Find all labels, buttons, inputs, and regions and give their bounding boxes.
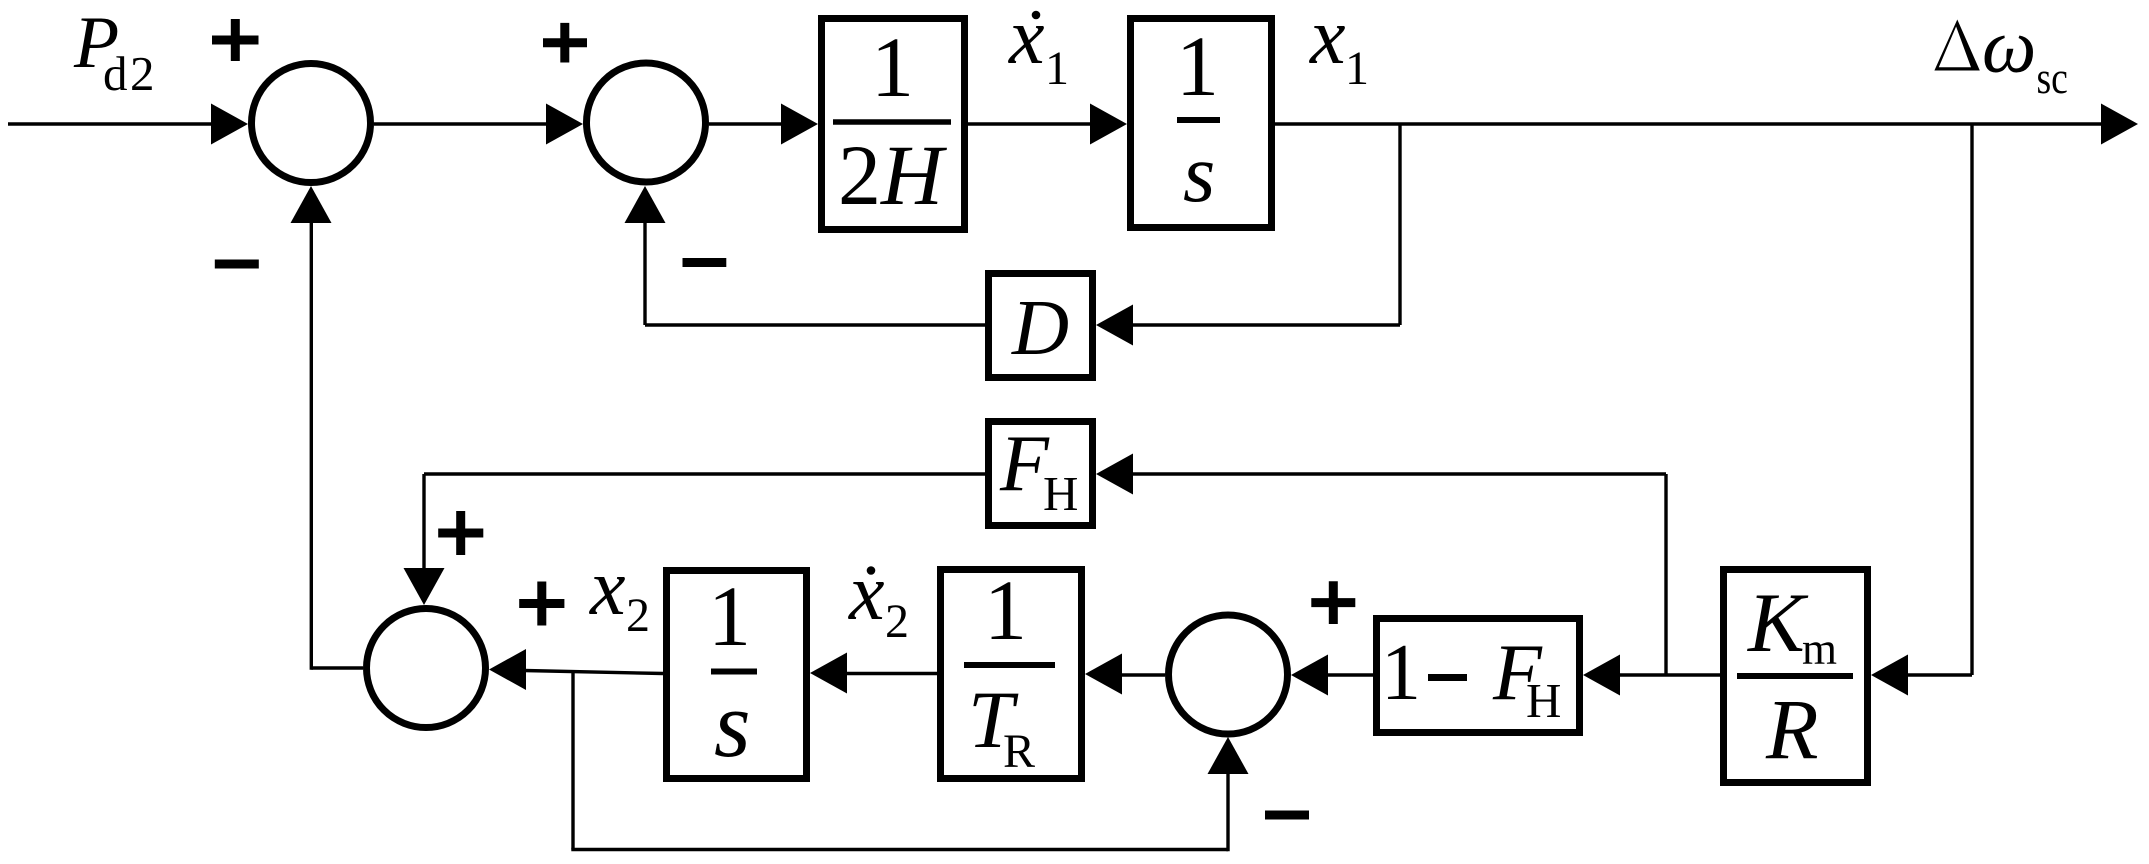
plus sign at S4 right input [1311,581,1355,624]
arrowhead into D right [1096,305,1133,346]
arrowhead down into S3 top [404,568,445,605]
arrowhead into S1 left [211,104,248,145]
arrowhead up into S1 bottom [291,186,332,223]
svg-text:x: x [1309,0,1346,81]
wire KmR output to 1-FH right side [1618,673,1720,676]
wire up into S1 bottom [310,221,313,670]
arrowhead into S2 left [546,104,583,145]
block 1/s top value text [1176,18,1220,219]
block 1/s bottom value text [708,568,757,777]
svg-text:H: H [1043,466,1078,521]
block FH box [989,422,1093,526]
arrowhead output delta-omega_sc [2101,104,2138,145]
block 1/TR box [941,570,1082,779]
svg-text:D: D [1011,285,1069,372]
label P_d2 [73,2,157,101]
label xdot2 [848,549,909,648]
svg-text:2: 2 [885,595,909,648]
wire x2 junction down [571,673,574,850]
block KmR value text [1737,576,1853,777]
svg-text:H: H [1526,673,1561,728]
wire S2 to block 1/2H [709,122,785,125]
wire FH output left to above S3 [424,472,985,475]
wire input Pd2 to summing junction S1 [8,122,214,125]
arrowhead into S3 right [489,649,526,690]
block 1/2H box [822,19,965,230]
arrowhead into 1-FH right [1583,655,1620,696]
summing junction S3 [367,609,486,728]
arrowhead up into S4 bottom [1208,737,1249,774]
summing junction S4 [1169,615,1288,734]
wire junction x1 down to D row [1398,124,1401,325]
svg-text:s: s [1183,127,1215,219]
wire bottom feedback horizontal [571,848,1228,851]
svg-text:d2: d2 [103,46,157,101]
wire S3 output left [311,666,363,669]
arrowhead into FH right [1096,454,1133,495]
minus sign at S4 lower input [1265,811,1309,820]
svg-text:1: 1 [1176,18,1219,114]
arrowhead into S4 right [1291,655,1328,696]
svg-text:m: m [1802,624,1837,674]
svg-text:ω: ω [1982,3,2036,89]
wire into FH block right side [1130,472,1666,475]
svg-text:K: K [1747,576,1809,670]
wire down into S3 top [422,474,425,570]
label x1 [1309,0,1369,95]
summing junction S2 [587,63,706,182]
block 1/TR value text [964,562,1055,778]
block 1-FH value text [1381,629,1561,728]
block 1/2H value text [833,19,951,223]
svg-text:1: 1 [871,19,914,115]
svg-text:s: s [714,673,751,777]
block 1-FH box [1377,619,1580,733]
svg-text:1: 1 [1345,42,1369,95]
wire 1/s bottom output to S3 right (signal x2) [524,671,663,674]
wire output junction down right side [1970,124,1973,675]
svg-text:1: 1 [984,562,1027,658]
minus sign at S2 lower input [683,258,727,267]
plus sign at S3 right input [519,582,564,626]
svg-text:2: 2 [626,589,650,642]
svg-text:1: 1 [1045,42,1069,95]
arrowhead into 1/TR right [1085,654,1122,695]
label x2 [589,544,650,642]
label xdot1 [1008,0,1069,95]
wire S1 to S2 [374,122,550,125]
svg-text:1: 1 [708,568,751,664]
plus sign at S1 input [212,19,259,61]
plus sign at S2 input [543,23,587,63]
svg-text:x: x [589,544,626,632]
label delta-omega_sc [1934,3,2068,104]
block 1/s top box [1131,19,1272,228]
svg-text:sc: sc [2037,54,2068,104]
wire junction at KmR output up to FH row [1664,474,1667,675]
svg-text:x: x [848,549,885,637]
wire D block output left to below S2 [645,323,985,326]
wire into D block right side [1130,323,1400,326]
arrowhead up into S2 bottom [625,186,666,223]
svg-text:R: R [1765,681,1819,777]
svg-text:R: R [1003,725,1035,778]
wire up into S2 bottom [643,220,646,325]
svg-text:1: 1 [1381,629,1421,717]
block KmR box [1724,570,1868,783]
svg-text:2H: 2H [838,127,947,223]
wire S4 output to 1/TR right [1120,673,1165,676]
wire 1/TR output to 1/s bottom right (signal xdot2) [845,672,937,675]
arrowhead into KmR right [1871,655,1908,696]
wire 1/2H to 1/s (signal xdot1) [968,122,1094,125]
summing junction S1 [252,64,371,183]
block 1/s bottom box [667,571,807,779]
wire up into S4 bottom [1226,772,1229,851]
arrowhead into 1/s bottom right [810,653,847,694]
arrowhead into 1/2H left [781,104,818,145]
block FH value text [999,420,1078,521]
plus sign at S3 top input [438,511,483,555]
wire 1/s to output arrow (signal x1 / delta-omega_sc) [1275,122,2104,125]
arrowhead into 1/s top left [1090,104,1127,145]
wire 1-FH output to S4 right [1326,673,1373,676]
minus sign at S1 lower input [215,260,259,269]
block D box [989,274,1093,378]
wire into KmR right side [1905,673,1972,676]
